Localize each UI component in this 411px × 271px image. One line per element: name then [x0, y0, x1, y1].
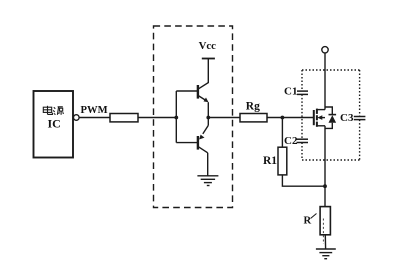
dotted box bottom edge [302, 159, 360, 161]
variable arrow mark of load resistor [311, 214, 317, 219]
wire drain vertical [324, 53, 326, 110]
wire gate node down to R1 [281, 118, 283, 148]
transistor Q2 (PNP, lower) [198, 118, 208, 176]
transistor Q1 (NPN, upper) [198, 59, 209, 118]
wire R1 bottom to source node [282, 175, 325, 186]
ground of load [316, 249, 336, 259]
label 源 (glyph strokes) [53, 107, 63, 115]
dotted box top edge [302, 69, 360, 71]
wire Rin to driver input node [138, 117, 176, 119]
svg-text:R1: R1 [263, 155, 277, 167]
MOSFET model dotted box left edge upper [301, 70, 303, 91]
svg-text:C3: C3 [340, 112, 354, 124]
svg-text:Vcc: Vcc [199, 40, 217, 52]
resistor R1 [278, 147, 287, 175]
Vcc supply bar [202, 58, 215, 60]
label 电 (glyph strokes) [43, 106, 52, 115]
resistor Rin (series base resistor) [110, 114, 138, 122]
svg-text:C2: C2 [284, 135, 298, 147]
drain terminal circle [322, 47, 328, 53]
dotted box right edge lower [359, 120, 361, 160]
wire source vertical [324, 126, 326, 186]
MOSFET Q3 (N-channel with body diode) [314, 107, 336, 128]
svg-text:IC: IC [48, 117, 61, 131]
wire base lead Q1 [176, 90, 198, 92]
wire base lead Q2 [176, 142, 198, 144]
wire PWM to input resistor [79, 117, 110, 119]
wire driver output to Rg [208, 117, 240, 119]
svg-text:Rg: Rg [246, 100, 260, 112]
svg-text:PWM: PWM [81, 105, 108, 116]
capacitor C1 [297, 91, 308, 94]
node D (source junction) [323, 184, 327, 188]
wire source node to load resistor [324, 186, 326, 206]
svg-text:R: R [304, 216, 312, 227]
power IC box U1 (电源IC) [34, 91, 74, 158]
resistor R load [320, 207, 330, 235]
wire load resistor to ground [324, 235, 326, 249]
resistor Rg [240, 114, 267, 122]
driver stage dashed box [154, 26, 233, 208]
dotted box right edge upper [359, 70, 361, 116]
wire base bus vertical [175, 91, 177, 143]
capacitor C2 [297, 139, 309, 142]
capacitor C3 [354, 117, 366, 120]
ground of driver stage [197, 176, 218, 186]
svg-text:C1: C1 [284, 86, 297, 98]
node C (gate node junction) [281, 116, 285, 120]
dotted edge C1 to C2 [301, 94, 303, 139]
node A (base junction) [174, 116, 178, 120]
dashed adjust line inside load resistor [322, 219, 324, 245]
output terminal circle of U1 [74, 115, 80, 121]
dotted edge C2 to bottom [301, 143, 303, 161]
node B (driver output junction) [206, 116, 210, 120]
wire Rg to gate [267, 117, 314, 119]
